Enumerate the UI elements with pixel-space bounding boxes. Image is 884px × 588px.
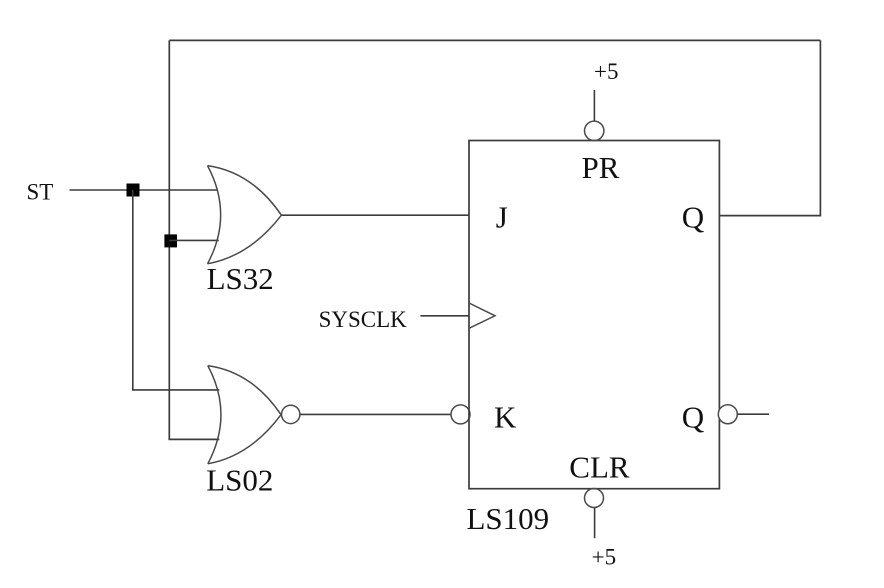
bubble CLR (active low clear) bbox=[585, 489, 604, 508]
flip-flop LS109 body bbox=[469, 141, 719, 489]
nor-gate LS02 bbox=[208, 366, 281, 464]
clock triangle bbox=[469, 303, 495, 328]
svg-text:PR: PR bbox=[582, 150, 620, 185]
bubble K input bbox=[451, 405, 470, 424]
svg-text:ST: ST bbox=[27, 180, 54, 205]
wire +5 to PR bubble bbox=[593, 90, 595, 121]
svg-text:LS32: LS32 bbox=[207, 261, 274, 296]
svg-text:+5: +5 bbox=[594, 59, 618, 84]
svg-text:Q: Q bbox=[682, 199, 704, 234]
svg-text:CLR: CLR bbox=[569, 449, 630, 484]
svg-text:Q: Q bbox=[682, 399, 704, 434]
bubble PR (active low preset) bbox=[585, 121, 604, 140]
wire from ST junction down to NOR top input bbox=[133, 190, 220, 390]
svg-text:+5: +5 bbox=[592, 544, 616, 569]
wire feedback left vertical down to NOR bottom input bbox=[169, 40, 219, 439]
svg-text:J: J bbox=[496, 199, 508, 234]
wire NOR output to K bubble bbox=[300, 413, 451, 415]
wire feedback top horizontal bbox=[169, 39, 820, 41]
svg-text:SYSCLK: SYSCLK bbox=[319, 307, 408, 332]
wire CLR bubble to +5 bbox=[594, 508, 596, 539]
bubble Qbar output bbox=[718, 405, 737, 424]
junction square on feedback vertical to OR lower input bbox=[164, 234, 177, 247]
svg-text:LS109: LS109 bbox=[467, 501, 550, 536]
wire from feedback junction to OR lower input bbox=[169, 239, 218, 241]
wire OR output to J input bbox=[281, 214, 469, 216]
svg-text:K: K bbox=[494, 399, 517, 434]
or-gate LS32 bbox=[208, 166, 282, 264]
wire SYSCLK to clock input bbox=[420, 315, 469, 317]
junction square on ST wire bbox=[127, 184, 140, 197]
wire Qbar stub bbox=[737, 413, 769, 415]
wire ST input to OR gate bbox=[70, 189, 219, 191]
wire feedback right vertical from top to Q output bbox=[719, 40, 820, 215]
svg-text:LS02: LS02 bbox=[206, 463, 273, 498]
bubble NOR output bbox=[282, 405, 300, 423]
